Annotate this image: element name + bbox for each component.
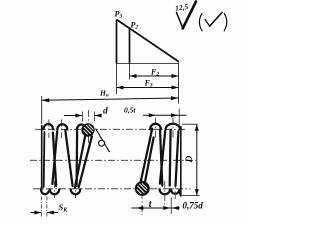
- svg-text:0,75d: 0,75d: [183, 201, 204, 211]
- svg-text:0,5t: 0,5t: [124, 106, 136, 115]
- svg-text:D: D: [185, 155, 195, 163]
- svg-text:d: d: [103, 107, 108, 117]
- svg-text:12,5: 12,5: [175, 2, 189, 13]
